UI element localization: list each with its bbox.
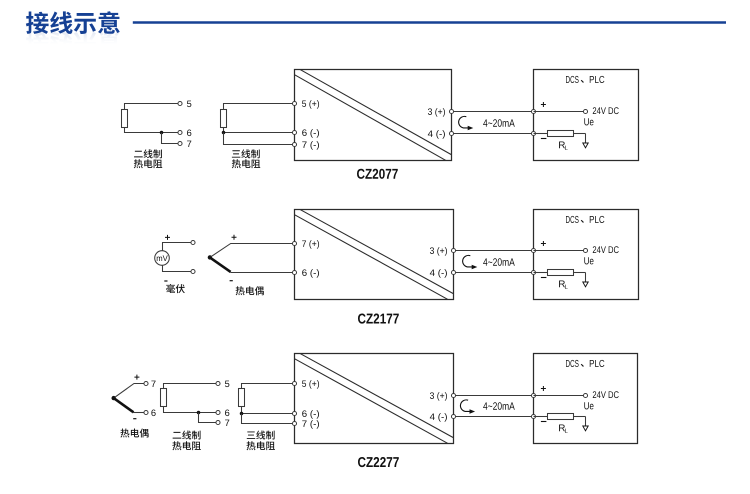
terminal minus of DCS CZ2077 — [531, 131, 535, 135]
terminal 6 of thermocouple 2 — [144, 410, 148, 414]
label Ue CZ2277 — [584, 402, 593, 409]
terminal 7 of CZ2077 — [292, 142, 296, 146]
label RL CZ2177 — [559, 280, 565, 287]
pin label 7 (-) of CZ2077 — [302, 141, 319, 150]
terminal 4 of CZ2077 — [449, 131, 453, 135]
title reflection — [26, 30, 120, 53]
wire to load resistor CZ2177 — [534, 272, 548, 274]
pin label 7 (+) of CZ2177 — [302, 240, 319, 249]
isolation barrier diagonal 2 of CZ2177 — [295, 215, 448, 299]
terminal of mV plus — [191, 240, 195, 244]
wire branch to terminal 7 — [162, 133, 178, 144]
terminal 6 — [178, 130, 182, 134]
label Ue CZ2177 — [584, 257, 593, 264]
terminal 6 of CZ2177 — [292, 270, 296, 274]
junction of two-wire RTD 2 — [197, 411, 201, 415]
wire three-wire RTD to 5(+) — [224, 104, 293, 110]
DCS PLC box CZ2177 — [534, 210, 639, 300]
terminal of mV minus — [191, 269, 195, 273]
wire two-wire RTD top to terminal 5 — [125, 104, 178, 110]
thermocouple negative wire to 6(-) — [230, 272, 292, 274]
junction of three-wire RTD 2 — [240, 412, 244, 416]
pin label 3 (+) of CZ2177 — [430, 247, 447, 256]
three-wire RTD resistor — [221, 110, 227, 128]
terminal 3 of CZ2077 — [449, 109, 453, 113]
load resistor RL CZ2177 — [548, 270, 574, 276]
label 二线制 — [134, 149, 162, 158]
pin number 7 row3 b — [225, 420, 229, 426]
mV minus sign — [164, 280, 167, 282]
terminal 7 of CZ2277 — [292, 421, 296, 425]
label 热电阻 row3a — [172, 441, 200, 450]
thermocouple 2 negative leg thick — [114, 398, 134, 412]
thermocouple 2 plus sign — [134, 375, 139, 380]
ground arrow CZ2177 — [583, 282, 588, 287]
wire 4(-) of CZ2077 to DCS — [454, 133, 532, 135]
thermocouple minus sign — [230, 280, 233, 282]
wire RL to ground CZ2177 — [574, 272, 586, 274]
minus sign CZ2077 — [541, 138, 547, 140]
label DCS PLC CZ2177 — [566, 216, 579, 223]
pin label 4 (-) of CZ2177 — [430, 269, 447, 278]
wire two-wire RTD 2 bottom to terminal 6 — [164, 407, 216, 413]
pin number 5 row3 — [225, 381, 229, 387]
pin number 7 row3 — [151, 381, 155, 387]
terminal 5 row3 — [216, 381, 220, 385]
terminal 24V DC CZ2277 — [583, 393, 587, 397]
thermocouple negative leg thick — [210, 257, 231, 272]
isolation barrier diagonal 1 of CZ2177 — [300, 210, 453, 294]
pin label 7 (-) of CZ2277 — [302, 420, 319, 429]
mV source label — [157, 255, 168, 261]
minus sign CZ2277 — [541, 421, 547, 423]
wire mV minus to terminal — [163, 265, 191, 271]
wire three-wire RTD to 7(-) — [224, 133, 293, 145]
wire 4(-) of CZ2177 to DCS — [456, 272, 532, 274]
thermocouple 2 positive leg — [114, 384, 144, 399]
wire branch to terminal 7 row3 — [199, 413, 216, 423]
terminal 4 of CZ2277 — [451, 414, 455, 418]
label 4~20mA of CZ2077 — [483, 119, 515, 127]
terminal 5 of CZ2077 — [292, 101, 296, 105]
pin label 4 (-) of CZ2077 — [428, 130, 445, 139]
terminal 3 of CZ2177 — [451, 248, 455, 252]
label 三线制 — [232, 149, 260, 158]
terminal 7 of thermocouple 2 — [144, 381, 148, 385]
pin number 6 — [187, 130, 191, 137]
wire three-wire RTD 2 to 7(-) — [242, 414, 293, 424]
pin label 3 (+) of CZ2077 — [428, 108, 445, 117]
label DCS PLC CZ2277 — [566, 360, 579, 367]
wire 24V supply CZ2077 — [534, 111, 584, 113]
load resistor RL CZ2277 — [548, 414, 574, 420]
title text 接线示意 — [26, 11, 120, 34]
wire to load resistor CZ2277 — [534, 416, 548, 418]
label 24V DC CZ2177 — [593, 246, 619, 253]
mV plus sign — [165, 235, 170, 240]
terminal 6 of CZ2077 — [292, 130, 296, 134]
pin label 5 (+) of CZ2077 — [302, 100, 319, 109]
thermocouple positive leg — [210, 244, 293, 258]
label 4~20mA of CZ2277 — [483, 402, 515, 410]
terminal plus of DCS CZ2177 — [531, 248, 535, 252]
terminal 24V DC CZ2077 — [583, 109, 587, 113]
pin label 6 (-) of CZ2277 — [302, 410, 319, 419]
wire three-wire RTD to 6(-) — [224, 128, 293, 133]
thermocouple junction — [208, 255, 212, 259]
isolator CZ2277 box — [295, 354, 454, 444]
label RL CZ2077 — [559, 141, 565, 148]
terminal minus of DCS CZ2177 — [531, 270, 535, 274]
terminal 5 of CZ2277 — [292, 381, 296, 385]
label 24V DC CZ2077 — [593, 107, 619, 114]
label 二线制 row3 — [173, 430, 201, 439]
wire three-wire RTD 2 to 5(+) — [242, 384, 293, 389]
label 24V DC CZ2277 — [593, 391, 619, 398]
terminal 7 of CZ2177 — [292, 241, 296, 245]
isolator CZ2077 box — [295, 70, 452, 161]
pin label 5 (+) of CZ2277 — [302, 380, 319, 389]
label DCS PLC CZ2077 — [566, 76, 579, 83]
pin number 6 row3 b — [225, 410, 229, 417]
current loop arrow of CZ2177 — [463, 255, 472, 267]
terminal 7 row3 — [216, 420, 220, 424]
minus sign CZ2177 — [541, 277, 547, 279]
wire mV plus to terminal — [163, 243, 191, 251]
label RL CZ2277 — [559, 424, 565, 431]
thermocouple 2 minus sign — [133, 418, 136, 420]
label Ue CZ2077 — [584, 118, 593, 125]
terminal 4 of CZ2177 — [451, 270, 455, 274]
wire 3(+) of CZ2177 to DCS — [456, 250, 532, 252]
isolation barrier diagonal 1 of CZ2277 — [300, 354, 453, 438]
wire 24V supply CZ2177 — [534, 250, 584, 252]
pin number 7 — [187, 141, 191, 147]
two-wire RTD resistor — [122, 110, 128, 128]
wire two-wire RTD bottom to terminal 6 — [125, 128, 178, 133]
terminal 6 row3 — [216, 410, 220, 414]
DCS PLC box CZ2077 — [534, 70, 639, 161]
isolation barrier diagonal 1 of CZ2077 — [300, 70, 451, 155]
terminal 24V DC CZ2177 — [583, 248, 587, 252]
label 热电偶 row3 — [120, 428, 148, 437]
isolator CZ2177 box — [295, 210, 454, 300]
two-wire RTD 2 resistor — [161, 389, 167, 407]
junction of three-wire RTD — [222, 131, 226, 135]
label 热电偶 — [236, 286, 264, 295]
pin label 6 (-) of CZ2177 — [302, 269, 319, 278]
wire RL to ground CZ2277 — [574, 416, 586, 418]
terminal 6 of CZ2277 — [292, 411, 296, 415]
thermocouple 2 junction — [112, 396, 116, 400]
wire 24V supply CZ2277 — [534, 395, 584, 397]
terminal plus of DCS CZ2077 — [531, 109, 535, 113]
title rule line — [133, 21, 726, 23]
current loop arrow of CZ2077 — [459, 116, 468, 128]
terminal 7 — [178, 141, 182, 145]
DCS PLC box CZ2277 — [534, 354, 638, 444]
current loop arrow of CZ2277 — [460, 400, 469, 412]
plus sign CZ2077 — [541, 102, 546, 107]
plus sign CZ2277 — [541, 386, 546, 391]
isolation barrier diagonal 2 of CZ2277 — [295, 359, 448, 444]
terminal minus of DCS CZ2277 — [531, 414, 535, 418]
pin number 5 — [187, 101, 191, 107]
three-wire RTD 2 resistor — [239, 389, 245, 407]
wire three-wire RTD 2 to 6(-) — [242, 407, 293, 414]
wire 3(+) of CZ2277 to DCS — [456, 395, 532, 397]
label 三线制 row3 — [247, 430, 275, 439]
terminal 5 — [178, 101, 182, 105]
junction of two-wire RTD — [160, 131, 164, 135]
plus sign CZ2177 — [541, 241, 546, 246]
ground arrow CZ2277 — [583, 426, 588, 431]
label CZ2177 — [358, 314, 399, 324]
label CZ2277 — [358, 457, 399, 467]
thermocouple plus sign — [232, 235, 237, 240]
pin label 6 (-) of CZ2077 — [302, 129, 319, 138]
pin label 4 (-) of CZ2277 — [430, 413, 447, 422]
ground arrow CZ2077 — [583, 143, 588, 148]
label 毫伏 — [166, 284, 185, 293]
pin label 3 (+) of CZ2277 — [430, 392, 447, 401]
label 4~20mA of CZ2177 — [483, 258, 515, 266]
isolation barrier diagonal 2 of CZ2077 — [295, 75, 446, 161]
wire to terminal 6 of thermocouple 2 — [133, 412, 144, 414]
mV source circle — [155, 251, 170, 266]
wire to load resistor CZ2077 — [534, 133, 548, 135]
label 热电阻 row3b — [247, 441, 275, 450]
terminal 3 of CZ2277 — [451, 393, 455, 397]
label CZ2077 — [357, 169, 398, 179]
label 热电阻 under 二线制 — [134, 159, 162, 168]
load resistor RL CZ2077 — [548, 131, 574, 137]
terminal plus of DCS CZ2277 — [531, 393, 535, 397]
wire RL to ground CZ2077 — [574, 133, 586, 135]
wire two-wire RTD 2 top to terminal 5 — [164, 384, 216, 389]
label 热电阻 under 三线制 — [232, 159, 260, 168]
wire 3(+) of CZ2077 to DCS — [454, 111, 532, 113]
pin number 6 row3 — [151, 410, 155, 417]
wire 4(-) of CZ2277 to DCS — [456, 416, 532, 418]
